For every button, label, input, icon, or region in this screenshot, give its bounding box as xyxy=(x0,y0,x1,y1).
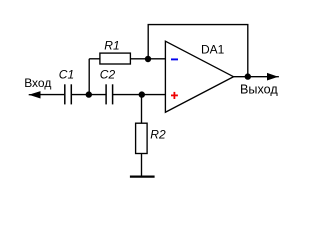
svg-text:Вход: Вход xyxy=(24,76,51,90)
svg-text:C2: C2 xyxy=(100,68,116,82)
svg-text:R2: R2 xyxy=(150,127,166,141)
svg-text:R1: R1 xyxy=(104,38,119,52)
svg-text:Выход: Выход xyxy=(240,83,278,97)
svg-text:DA1: DA1 xyxy=(201,42,225,56)
svg-text:C1: C1 xyxy=(59,67,74,81)
